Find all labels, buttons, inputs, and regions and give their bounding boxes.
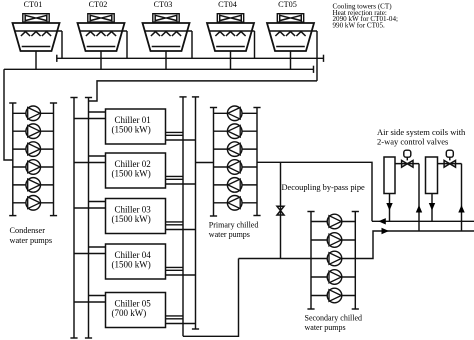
svg-text:CT04: CT04 [218,0,237,9]
chiller 2 condenser outlet pipe [74,162,106,164]
CT02 spray nozzle [107,32,116,36]
primary pump header left [213,108,215,217]
cooling tower CT05 fan box [277,14,303,22]
flow arrow: return header [378,218,386,224]
primary pump branch 5 [214,184,258,186]
flow arrow up coil 2 [458,205,464,213]
CT01 inlet riser [61,31,63,58]
CT01 spray nozzle [21,32,30,36]
primary pump header right [256,108,258,216]
CT05 outlet pipe [290,51,292,69]
chiller 5 condenser outlet pipe [74,301,106,303]
CT01 fan blade left [25,15,35,20]
chiller 02 box [106,153,166,188]
condenser water pump 4 [26,160,41,175]
svg-text:Condenser: Condenser [10,226,46,235]
CT01 spray nozzle [31,32,40,36]
condenser pump branch 3 [13,148,54,150]
chiller 01 box [106,109,166,144]
CT03 basin line [152,46,181,48]
CT04 fan blade right [231,15,241,20]
primary pump branch 6 [214,202,258,204]
wire: chilled water return into chillers [196,162,214,164]
chiller 4 evaporator inlet pipe [166,274,196,276]
chiller 4 condenser inlet pipe [89,246,106,248]
condenser return header from chillers [88,98,90,339]
CT02 spray nozzle [96,32,105,36]
secondary pump suction header [310,212,312,310]
chiller 1 condenser outlet pipe [74,118,106,120]
CT05 fan blade right [291,15,301,20]
CT02 spray nozzle [86,32,95,36]
chiller 4 evaporator outlet pipe (double) [166,266,184,268]
CT02 basin line [87,46,116,48]
CT02 fan blade right [102,15,112,20]
svg-text:(1500 kW): (1500 kW) [112,260,151,270]
CT01 basin line [22,46,51,48]
svg-text:2-way control valves: 2-way control valves [377,137,448,147]
svg-text:(1500 kW): (1500 kW) [112,125,151,135]
chilled water supply header from chillers [182,97,184,336]
flow arrow up coil 1 [416,205,422,213]
CT03 outlet pipe [165,51,167,69]
CT04 tower body [207,23,254,51]
primary chilled water pump 4 [227,160,242,175]
svg-text:(1500 kW): (1500 kW) [112,169,151,179]
svg-text:Chiller 04: Chiller 04 [115,250,152,260]
svg-text:Air side system coils with: Air side system coils with [377,127,466,137]
CT05 tower body [267,23,314,51]
secondary pump branch 3 [311,258,355,260]
CT04 spray nozzle [226,32,235,36]
coil 1 return drop [389,193,391,221]
wire: chilled water supply run to secondary loop [183,259,239,337]
chiller 3 evaporator inlet pipe [166,229,196,231]
wire: hot condenser water header from chillers to towers [89,81,318,101]
svg-text:CT01: CT01 [24,0,43,9]
CT04 outlet pipe [230,51,232,69]
CT01 outlet pipe [35,51,37,69]
CT03 spray nozzle [172,32,181,36]
decoupling by-pass pipe [280,162,282,258]
chiller 2 evaporator outlet pipe (double) [166,175,184,177]
CT04 spray header / inlet pipe [209,30,254,32]
svg-text:(700 kW): (700 kW) [112,308,147,318]
coil 2 return drop [431,193,433,221]
CT03 spray nozzle [161,32,170,36]
svg-text:water pumps: water pumps [305,323,346,332]
svg-text:Chiller 03: Chiller 03 [115,204,152,214]
air-side coil 2 [426,157,438,194]
2-way control valve 1 [402,160,408,167]
svg-text:water pumps: water pumps [10,236,53,245]
wire: coil return header [372,220,474,222]
CT03 spray nozzle [151,32,160,36]
condenser water pump 3 [26,142,41,157]
header A: condenser water to towers [57,57,324,59]
CT05 spray header / inlet pipe [269,30,317,32]
svg-text:990 kW for CT05.: 990 kW for CT05. [333,22,386,30]
condenser pump branch 5 [13,184,54,186]
condenser pump branch 2 [13,130,54,132]
header B: condenser water from towers [4,68,314,70]
svg-text:Chiller 05: Chiller 05 [115,298,152,308]
chiller 4 condenser outlet pipe [74,253,106,255]
svg-text:CT05: CT05 [278,0,297,9]
chiller 1 evaporator outlet pipe (double) [166,131,184,133]
condenser pump discharge header [53,103,55,216]
condenser water pump 1 [26,106,41,121]
chiller 03 box [106,199,166,234]
chiller 5 evaporator outlet pipe (double) [166,315,184,317]
secondary pump branch 4 [311,276,355,278]
condenser supply header to chillers [73,98,75,339]
chiller 2 evaporator inlet pipe [166,183,196,185]
CT03 tower body [143,23,190,51]
flow arrow down coil 2 [429,203,435,211]
CT02 inlet riser [126,31,128,58]
condenser pump branch 4 [13,166,54,168]
flow arrow down coil 1 [386,203,392,211]
air-side coil 1 [384,157,395,194]
wire: supply into secondary pumps [239,258,312,260]
chiller 5 condenser inlet pipe [89,295,106,297]
CT05 inlet riser down to hot water header [316,31,318,81]
condenser water pump 5 [26,178,41,193]
CT02 tower body [78,23,125,51]
cooling tower CT04 fan box [217,14,243,22]
by-pass valve [277,206,284,210]
primary chilled water pump 1 [227,106,242,121]
secondary chilled water pump 1 [327,214,342,229]
wire: secondary supply header to coils [355,231,474,259]
condenser pump branch 6 [13,202,54,204]
coil 2 supply riser [461,164,463,231]
condenser water pump 2 [26,124,41,139]
primary pump branch 3 [214,148,258,150]
CT02 fan blade left [90,15,100,20]
primary chilled water pump 6 [227,196,242,211]
CT05 fan blade left [280,15,290,20]
secondary pump branch 1 [311,221,355,223]
CT05 spray nozzle [275,32,284,36]
CT04 basin line [216,46,245,48]
CT05 spray nozzle [286,32,295,36]
CT04 inlet riser [254,31,256,58]
primary pump branch 1 [214,112,258,114]
CT05 basin line [276,46,305,48]
svg-text:(1500 kW): (1500 kW) [112,214,151,224]
coil 2 valve pipe [438,163,462,165]
secondary pump branch 2 [311,239,355,241]
svg-text:CT02: CT02 [89,0,108,9]
chiller 5 evaporator inlet pipe [166,323,196,325]
secondary chilled water pump 4 [327,270,342,285]
primary chilled water pump 2 [227,124,242,139]
cooling tower CT03 fan box [153,14,179,22]
CT03 fan blade right [167,15,177,20]
chiller 1 evaporator inlet pipe [166,139,196,141]
secondary chilled water pump 5 [327,288,342,303]
chiller 1 condenser inlet pipe [89,111,106,113]
primary pump branch 2 [214,130,258,132]
chiller 3 condenser outlet pipe [74,207,106,209]
chiller 3 condenser inlet pipe [89,201,106,203]
cooling tower CT02 fan box [88,14,114,22]
primary chilled water pump 3 [227,142,242,157]
wire: secondary return to primary loop [257,162,372,221]
wire: header B down left edge to condenser pump suction header [4,69,13,160]
CT04 spray nozzle [215,32,224,36]
coil 1 supply riser [418,164,420,231]
flow arrow: supply header [382,228,390,234]
svg-text:water pumps: water pumps [209,230,250,239]
CT03 inlet riser [191,31,193,58]
svg-text:CT03: CT03 [154,0,173,9]
condenser water pump 6 [26,196,41,211]
CT04 spray nozzle [236,32,245,36]
coil 1 valve pipe [395,163,419,165]
CT01 tower body [13,23,60,51]
CT01 spray header / inlet pipe [15,30,62,32]
svg-text:Primary chilled: Primary chilled [209,221,259,230]
chiller 04 box [106,244,166,279]
CT03 fan blade left [155,15,165,20]
CT01 fan blade right [37,15,47,20]
chiller 2 condenser inlet pipe [89,155,106,157]
2-way control valve 2 [444,160,450,167]
CT02 spray header / inlet pipe [80,30,127,32]
secondary pump discharge header [354,212,356,310]
svg-text:Chiller 02: Chiller 02 [115,159,151,169]
CT04 fan blade left [220,15,230,20]
secondary pump branch 5 [311,295,355,297]
secondary chilled water pump 2 [327,233,342,248]
condenser pump suction header [12,103,14,216]
CT01 spray nozzle [42,32,51,36]
primary chilled water pump 5 [227,178,242,193]
cooling tower CT01 fan box [23,14,49,22]
CT02 outlet pipe [100,51,102,69]
CT05 spray nozzle [296,32,305,36]
CT03 spray header / inlet pipe [145,30,192,32]
chiller 3 evaporator outlet pipe (double) [166,221,184,223]
primary pump branch 4 [214,166,258,168]
condenser pump branch 1 [13,112,54,114]
svg-text:Secondary chilled: Secondary chilled [305,314,363,323]
secondary chilled water pump 3 [327,251,342,266]
chiller 05 box [106,293,166,328]
svg-text:Decoupling by-pass pipe: Decoupling by-pass pipe [282,183,366,192]
chilled water return header to chillers [195,97,197,329]
svg-text:Chiller 01: Chiller 01 [115,115,151,125]
